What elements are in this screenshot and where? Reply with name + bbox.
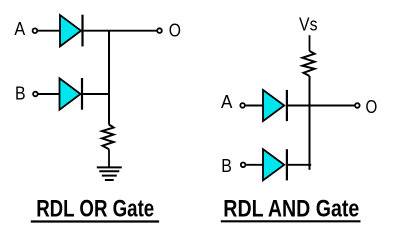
wire Vs to resistor R2 — [309, 35, 311, 51]
terminal circle output O (AND) — [355, 103, 360, 108]
wire diode D4 to junction bus — [288, 164, 311, 166]
wire input A to diode D1 — [38, 30, 60, 32]
resistor R1 (OR gate pull-down) — [102, 125, 114, 150]
wire input A to diode D3 — [246, 105, 263, 107]
wire diode D2 to junction — [83, 93, 109, 95]
wire resistor R1 to ground — [108, 149, 110, 167]
diode D2 (OR gate, input B) — [60, 78, 83, 110]
label "RDL AND Gate" — [221, 196, 361, 223]
wire input B to diode D4 — [246, 164, 263, 166]
label "RDL OR Gate" — [31, 196, 159, 223]
wire diode D1 to output node O — [84, 30, 157, 32]
svg-text:Vs: Vs — [299, 15, 318, 35]
resistor R2 (AND gate pull-up) — [302, 51, 314, 76]
terminal circle input B (AND) — [241, 163, 246, 168]
wire junction vertical (OR output bus) — [108, 31, 110, 125]
svg-text:O: O — [366, 97, 378, 117]
diode D1 (OR gate, input A) — [60, 15, 83, 47]
wire input B to diode D2 — [38, 93, 59, 95]
wire resistor R2 to junction and down to diode D4 branch — [309, 76, 311, 170]
svg-text:RDL OR Gate: RDL OR Gate — [36, 196, 154, 223]
svg-text:A: A — [14, 19, 25, 39]
diode D3 (AND gate, input A) — [263, 90, 287, 121]
terminal circle input A (AND) — [240, 103, 245, 108]
terminal circle output O (OR) — [157, 28, 162, 33]
svg-text:A: A — [221, 92, 232, 112]
svg-text:O: O — [169, 21, 181, 41]
terminal circle input A (OR) — [33, 28, 38, 33]
ground symbol (OR gate) — [97, 167, 122, 180]
wire diode D3 through junction to output node O — [288, 105, 354, 107]
svg-text:RDL AND Gate: RDL AND Gate — [223, 196, 359, 223]
svg-text:B: B — [221, 156, 232, 176]
svg-text:B: B — [15, 84, 26, 104]
diode D4 (AND gate, input B) — [263, 149, 287, 180]
terminal circle input B (OR) — [33, 92, 38, 97]
